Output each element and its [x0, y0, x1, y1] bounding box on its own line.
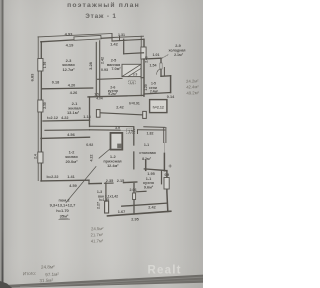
corner jamb at x=137.5 — [137, 130, 139, 134]
wall: nook top y=192 — [136, 190, 146, 193]
annotations mid bottom — [90, 226, 104, 244]
wall: divider room 2-3 / 2-1 — [42, 87, 93, 90]
post left — [96, 110, 100, 118]
annotations bottom left — [23, 264, 60, 284]
wall: bath left vertical — [105, 183, 107, 201]
dashed box 1.0 — [129, 80, 136, 84]
wall: bottom of room 1-2 — [41, 179, 89, 182]
bottom band speckle line 1 — [20, 277, 203, 288]
post right — [143, 111, 147, 118]
stove rect — [111, 133, 123, 150]
wall: left outer x=41 (double) — [40, 42, 42, 181]
wall: top of room 1-2 — [41, 137, 90, 138]
bottom dark band — [0, 275, 203, 288]
stairs box — [122, 64, 141, 76]
wall: kitchen left vertical (double) — [95, 42, 97, 96]
wall: hall bottom — [89, 182, 101, 184]
stove inner mark — [117, 144, 121, 149]
window on top wall — [74, 35, 101, 40]
bottom left dark corner — [0, 281, 12, 288]
wall: divider y=78 right part — [141, 77, 144, 79]
wall: hall right vertical upper — [133, 127, 135, 145]
wall: step vertical x=134 — [133, 184, 135, 215]
door arc porch — [157, 69, 161, 74]
door swing diagonal hall — [99, 149, 110, 159]
tick on top wall — [119, 36, 121, 40]
window on left wall (bottom) — [38, 152, 43, 163]
wall: right outer R1 (double with window gap) — [164, 127, 166, 142]
wall: interior y=205 — [122, 203, 167, 206]
wall: bottom of room R1 — [144, 169, 164, 171]
wall: top jog at x=112 — [111, 34, 113, 42]
window right wall R2 — [164, 178, 169, 190]
door rect on x=134 wall — [133, 193, 136, 200]
leader line from stamp — [66, 167, 96, 203]
bottom band speckle line 2 — [100, 280, 203, 285]
door jamb x=145.7 — [145, 160, 147, 170]
wall: hall top lower line — [90, 129, 121, 131]
wall: top outer B (double) — [112, 36, 144, 37]
scan left black edge — [0, 0, 1, 1]
wall: divider left section — [45, 129, 90, 132]
wall: right outer upper (double) — [143, 39, 145, 96]
leader dots 2-9 — [162, 55, 169, 59]
wall: hall top upper line — [90, 125, 134, 127]
small dashed 1.5 box — [126, 129, 134, 134]
porch inner step — [163, 68, 165, 77]
wall: right outer R2 — [164, 171, 167, 212]
wall: hall bottom right part — [124, 181, 137, 184]
porch bottom wall — [144, 93, 171, 95]
stairs diagonal — [122, 64, 141, 76]
free wall with posts y=113 — [98, 113, 146, 115]
stairs diagonal 2 — [128, 68, 141, 76]
window on right upper wall — [141, 47, 146, 59]
wall: vertical x=89.5 — [89, 97, 91, 127]
grain overlay — [0, 0, 203, 288]
window on left wall (middle) — [38, 100, 43, 112]
wall: jog at x=89 — [88, 180, 90, 184]
porch step wall — [161, 75, 171, 78]
boiler room box — [150, 100, 167, 113]
cross mark right wall — [169, 165, 172, 168]
bath door rect — [105, 201, 109, 213]
annotations right margin — [186, 78, 200, 95]
porch right wall 1 — [160, 58, 162, 76]
wall: top outer A (double) — [41, 38, 112, 42]
wall: top of R1 (double) — [144, 126, 165, 129]
wall: vertical x=161.5 — [161, 171, 163, 184]
wall: hall right vertical lower — [133, 152, 135, 169]
wall: bottom outer — [108, 211, 171, 216]
porch top wall — [144, 57, 162, 60]
porch right wall 2 — [170, 76, 172, 93]
window on left wall (top) — [38, 59, 43, 72]
wall: bottom of room 2-1 — [43, 119, 90, 122]
wall: divider y=78 — [98, 77, 122, 80]
partition small room top right — [123, 39, 125, 54]
paper background — [0, 0, 203, 288]
wall: divider y=96.5 under kitchen — [88, 95, 144, 97]
